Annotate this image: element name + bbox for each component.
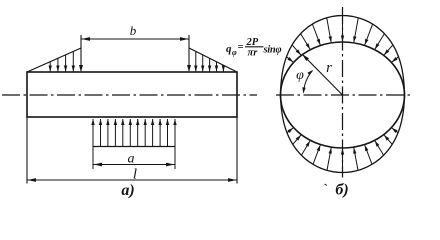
svg-text:а): а) [121,182,134,199]
svg-text:б): б) [335,182,348,199]
svg-text:b: b [130,23,137,38]
svg-text:r: r [326,60,332,76]
svg-text:πr: πr [248,48,259,59]
svg-text:φ: φ [232,48,237,57]
svg-text:sinφ: sinφ [263,45,282,56]
svg-text:=: = [238,41,244,53]
svg-text:a: a [128,152,135,167]
svg-text:φ: φ [296,68,304,83]
svg-text:l: l [133,167,137,183]
